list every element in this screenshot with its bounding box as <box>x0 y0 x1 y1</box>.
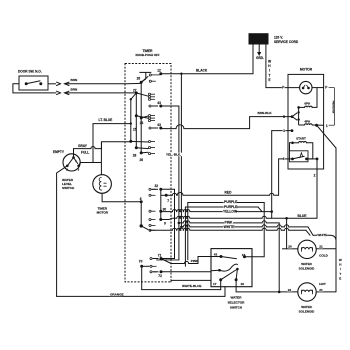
label WHITE (vertical, service) <box>268 60 272 82</box>
wire gray riser to timer <box>102 142 131 149</box>
svg-text:27: 27 <box>133 88 137 92</box>
svg-text:YELLOW: YELLOW <box>223 209 238 213</box>
wire YELLOW timer 30 to motor 3 drop <box>161 210 273 213</box>
svg-text:70: 70 <box>139 260 143 264</box>
wire PINK lower (71 to selector 43) <box>171 257 221 264</box>
svg-text:PURPLE: PURPLE <box>224 205 238 209</box>
svg-text:PINK: PINK <box>191 259 199 263</box>
motor start winding START <box>290 137 313 159</box>
cold water solenoid <box>282 240 336 258</box>
label YEL.-BLK. <box>166 153 184 157</box>
wire white service lead <box>266 44 300 88</box>
label WHITE (vertical right) <box>339 258 342 280</box>
svg-text:GRAY: GRAY <box>78 144 88 148</box>
svg-text:COLD: COLD <box>319 254 329 258</box>
svg-text:43: 43 <box>157 101 161 105</box>
wire BLUE run timer 9 to motor 2 <box>172 216 317 219</box>
timer motor <box>93 142 112 194</box>
wire PURPLE upper (71 riser to selector 18) <box>188 203 264 260</box>
svg-text:GRD.: GRD. <box>256 56 264 60</box>
water selector switch box <box>211 249 252 287</box>
wire PINK run (43 to hot solenoid) <box>178 221 281 293</box>
label P left <box>282 86 285 90</box>
timer contact 7 <box>149 194 169 203</box>
svg-text:LT. BLUE: LT. BLUE <box>99 118 113 122</box>
svg-text:T: T <box>339 272 341 276</box>
svg-text:SOLENOID: SOLENOID <box>299 267 316 271</box>
svg-text:3: 3 <box>283 129 285 133</box>
svg-text:T: T <box>268 73 270 77</box>
motor speed switch terminal 5 <box>288 107 300 125</box>
svg-text:SERVICE CORD: SERVICE CORD <box>274 40 299 44</box>
svg-text:YEL.-BLK.: YEL.-BLK. <box>166 152 181 156</box>
wire water level 3 to timer motor stem <box>79 163 81 166</box>
wire white bus from timer 8 contact <box>150 228 310 235</box>
wire motor 1 diagonal to white drop <box>317 125 336 148</box>
svg-text:32: 32 <box>155 184 159 188</box>
svg-text:21: 21 <box>319 245 323 249</box>
door switch DOOR SW. N.O. <box>18 70 48 91</box>
label PINK <box>224 221 233 225</box>
svg-text:7: 7 <box>167 199 169 203</box>
svg-text:71: 71 <box>158 253 162 257</box>
wire 70 to white-blue <box>141 266 143 289</box>
wire WHITE-BLUE to selector 17 <box>142 280 221 290</box>
label PURPLE (upper) <box>224 200 237 204</box>
wire PURPLE lower (70 riser merging to yellow) <box>185 207 262 266</box>
svg-text:BRN: BRN <box>71 87 78 91</box>
motor box <box>288 68 324 169</box>
svg-text:BRN-BLK: BRN-BLK <box>258 111 273 115</box>
timer arm 71 to pink <box>161 259 171 264</box>
label WATER LEVEL SWITCH <box>62 178 75 190</box>
timer contact 43 upper <box>149 101 162 108</box>
wire black service lead <box>161 44 253 74</box>
wire EMPTY/orange drop <box>57 166 68 297</box>
label WHITE (run) <box>223 225 234 229</box>
label WATER SOLENOID (hot) <box>299 305 316 314</box>
wire ORANGE <box>57 287 225 297</box>
svg-text:EMPTY: EMPTY <box>53 150 65 154</box>
wire 72 to selector <box>161 271 211 273</box>
svg-text:72: 72 <box>158 274 162 278</box>
label YELLOW <box>223 210 236 214</box>
timer contact 27 group <box>130 88 155 100</box>
label BLUE <box>297 214 306 218</box>
svg-text:43: 43 <box>157 123 161 127</box>
wire BRN-BLK to motor 5 <box>250 111 288 129</box>
svg-text:17: 17 <box>213 282 217 286</box>
svg-text:W: W <box>339 258 342 262</box>
timer internal bus 32-30 <box>160 189 162 219</box>
motor winding 4PH <box>299 120 324 127</box>
inline connector pair (upper BRN) <box>57 82 126 85</box>
wire selector 18 to purple riser <box>0 0 1 1</box>
svg-text:FULL: FULL <box>81 150 89 154</box>
svg-text:6PH: 6PH <box>304 101 310 105</box>
svg-text:HOT: HOT <box>319 282 326 286</box>
svg-text:BRN: BRN <box>71 78 78 82</box>
wire 6PH to P junction <box>312 88 317 108</box>
svg-text:RED: RED <box>225 190 233 194</box>
svg-text:4PH: 4PH <box>304 120 310 124</box>
timer contact 32 <box>149 184 162 191</box>
label 3 <box>283 129 286 133</box>
wire YEL.-BLK. black drop to white run <box>180 73 182 227</box>
svg-text:SWITCH: SWITCH <box>62 186 75 190</box>
timer contact 28/26 group <box>129 116 155 162</box>
svg-text:DOOR SW. N.O.: DOOR SW. N.O. <box>18 70 42 74</box>
svg-text:2: 2 <box>314 174 316 178</box>
wire timer box corner to selector 17 <box>171 280 211 282</box>
wire motor terminal 2 to blue <box>314 159 317 218</box>
wire motor terminal 4 <box>282 157 292 161</box>
timer contact 43 lower <box>149 123 162 129</box>
svg-text:1: 1 <box>326 124 328 128</box>
svg-text:I: I <box>269 69 270 73</box>
svg-text:ORANGE: ORANGE <box>110 292 124 296</box>
timer contact 26 (arm) <box>137 76 149 84</box>
wire timer 43 lower to motor (via brn-blk riser) <box>161 125 250 129</box>
svg-text:START: START <box>296 137 306 141</box>
label WHITE-BLUE <box>182 285 202 289</box>
timer internal bus from 27 <box>135 93 137 116</box>
inline connector pair (lower BRN) <box>57 91 137 94</box>
wire timer motor to timer terminal 8 <box>102 193 141 201</box>
svg-text:26: 26 <box>140 158 144 162</box>
timer box TIMER KNOB-PUSH OFF (dashed) <box>125 49 171 282</box>
svg-text:30: 30 <box>163 207 167 211</box>
ground lead GRD. <box>256 44 264 60</box>
svg-text:SOLENOID: SOLENOID <box>299 310 316 314</box>
svg-text:26: 26 <box>137 77 141 81</box>
label 5 <box>283 115 286 119</box>
svg-text:28: 28 <box>133 153 137 157</box>
wire selector 19 to hot solenoid <box>236 280 298 292</box>
svg-text:18: 18 <box>242 253 246 257</box>
svg-text:BLACK: BLACK <box>196 69 208 73</box>
timer contact 72 <box>150 270 163 278</box>
wire RED timer 7 to motor 4 <box>166 159 283 195</box>
wire door switch loop (left, lower) <box>13 84 56 93</box>
timer contact 9 <box>149 218 172 225</box>
timer internal left bus <box>130 99 132 141</box>
timer terminal 8 and bus <box>140 197 149 230</box>
svg-text:SELECTOR: SELECTOR <box>228 300 246 304</box>
label P right <box>325 86 328 90</box>
svg-text:I: I <box>340 267 341 271</box>
svg-text:WHITE: WHITE <box>317 233 327 237</box>
svg-text:21: 21 <box>319 288 323 292</box>
motor winding 6PH <box>297 101 312 108</box>
wire timer 43 upper drop to pink and 71 <box>157 106 179 260</box>
timer contact 30 <box>149 207 166 212</box>
wire motor terminal 3 <box>272 129 294 218</box>
svg-text:WATER: WATER <box>301 305 312 309</box>
motor thermal protector <box>300 81 312 93</box>
label WATER SOLENOID (cold) <box>299 262 316 271</box>
hot water solenoid <box>287 283 336 301</box>
wire white drop right side <box>335 148 337 292</box>
timer contact 12 <box>149 69 162 83</box>
svg-text:9: 9 <box>164 221 166 225</box>
timer contact 24 group <box>135 114 155 125</box>
wire GRAY from water level switch <box>74 144 102 158</box>
motor centrifugal switch <box>290 151 319 162</box>
svg-text:WATER: WATER <box>231 295 243 299</box>
svg-text:MOTOR: MOTOR <box>300 68 313 72</box>
svg-text:KNOB-PUSH OFF: KNOB-PUSH OFF <box>135 53 159 57</box>
svg-text:43: 43 <box>214 253 218 257</box>
label WHITE (right) <box>317 234 327 238</box>
plug 120 V. SERVICE CORD <box>249 34 299 44</box>
wire cold 20 riser from blue <box>286 218 288 249</box>
svg-text:12: 12 <box>157 69 161 73</box>
label RED <box>224 191 231 195</box>
timer contact 70 <box>139 260 157 268</box>
svg-text:E: E <box>339 276 341 280</box>
label WATER SELECTOR SWITCH <box>228 295 246 309</box>
svg-text:SWITCH: SWITCH <box>230 305 243 309</box>
timer push-off knob bar <box>139 72 151 82</box>
label ORANGE <box>110 293 122 297</box>
svg-text:8: 8 <box>140 197 142 201</box>
water level switch <box>53 150 89 172</box>
wire 32 drop to 71 <box>161 189 175 258</box>
svg-text:19: 19 <box>241 282 245 286</box>
wire BRN upper into timer to contact 26 <box>125 82 141 84</box>
label PURPLE (lower) <box>224 205 237 209</box>
wire WHITE run <box>180 225 336 241</box>
svg-text:22: 22 <box>288 288 292 292</box>
protector bracket P-1 <box>329 88 335 126</box>
svg-text:H: H <box>339 263 341 267</box>
timer internal bus from 26 <box>140 82 142 118</box>
svg-text:20: 20 <box>288 245 292 249</box>
svg-text:PURPLE: PURPLE <box>224 200 238 204</box>
svg-text:WATER: WATER <box>301 262 312 266</box>
svg-text:WHITE-BLUE: WHITE-BLUE <box>182 284 201 288</box>
timer contact 71 <box>150 253 163 260</box>
svg-text:BLUE: BLUE <box>298 214 308 218</box>
wire LT. BLUE <box>93 118 132 163</box>
svg-text:PROTECTOR: PROTECTOR <box>331 101 333 114</box>
svg-text:WHITE: WHITE <box>224 225 235 229</box>
label TIMER MOTOR <box>97 206 109 214</box>
svg-text:MOTOR: MOTOR <box>97 210 109 214</box>
timer contact jaws at 8 arm <box>149 224 156 231</box>
wire protector to right edge <box>312 87 324 89</box>
wire door switch to connector (upper) <box>48 83 56 85</box>
